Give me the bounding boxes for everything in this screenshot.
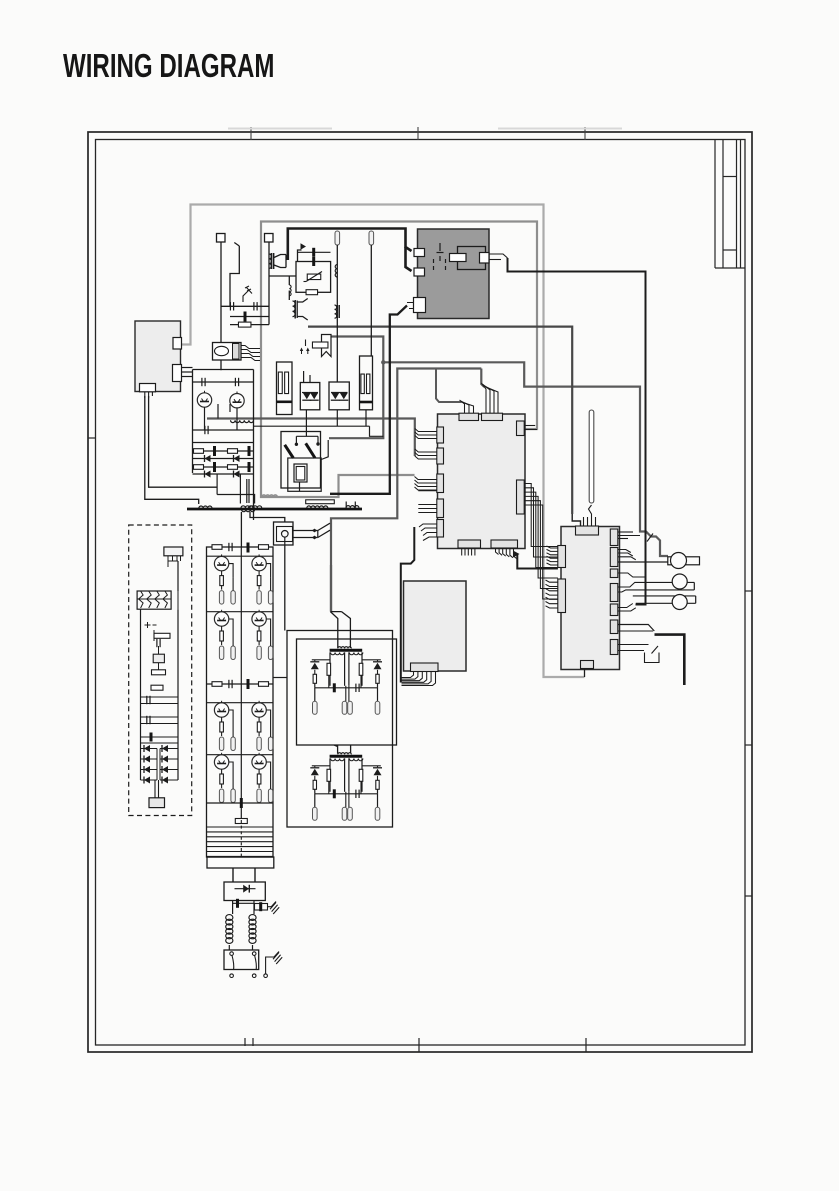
wire G3 pad pins xyxy=(415,429,437,432)
dbox cap marks xyxy=(145,622,157,628)
wire B6 hybrid tab3 down xyxy=(407,303,414,309)
dbox wires xyxy=(140,609,142,697)
transistor Q4 xyxy=(252,556,266,570)
wire stub near S1 xyxy=(230,246,239,307)
U4 left pad 1 xyxy=(437,427,444,443)
frame fold mark top 2 xyxy=(417,127,419,140)
border frame inner xyxy=(96,140,746,1046)
frame fold mark left xyxy=(88,437,96,439)
wire U2 to bus xyxy=(145,396,199,504)
bank center rail xyxy=(240,547,242,820)
choke nested box xyxy=(274,522,294,545)
diode box D1 xyxy=(300,383,320,410)
frame fold mark right 1 xyxy=(745,590,752,592)
connector square S2 xyxy=(265,234,274,243)
U4 pad bottom 1 xyxy=(458,540,481,548)
U2 tab right mid xyxy=(173,365,182,382)
U4 pad top right xyxy=(482,413,503,420)
main bus line xyxy=(187,508,362,511)
wire S2 down xyxy=(268,242,270,325)
transistor Q5 xyxy=(214,612,228,626)
fuse box F1 xyxy=(277,362,293,415)
transformer T2 xyxy=(330,755,363,758)
bus winding 4 xyxy=(346,506,359,508)
bank ladder lines xyxy=(207,826,274,828)
resistor near flag xyxy=(312,342,328,348)
dbox resistor 2 xyxy=(152,670,166,675)
choke on L1 wire xyxy=(335,265,337,278)
U5 left pad2 bundle xyxy=(546,580,558,582)
switch box SW1 xyxy=(224,950,259,970)
transistor Q10 xyxy=(252,755,266,769)
bus winding 3 xyxy=(307,506,328,508)
cluster diode row 2 xyxy=(193,473,254,475)
cluster resistor row 2 xyxy=(193,466,254,468)
wire gray route G3 to IC1 pads 1-2 xyxy=(207,419,415,457)
wire L1 down xyxy=(336,245,338,382)
cap box right xyxy=(253,903,255,914)
wire gray route G6 IC1 top pads to transformer xyxy=(331,369,481,566)
hybrid U1 small marks xyxy=(439,243,441,251)
coil spring right xyxy=(249,915,256,921)
transistor Q2 xyxy=(230,394,244,408)
U4 pad bottom 2 xyxy=(491,540,518,548)
bank base rect xyxy=(207,857,274,868)
arrow symbol xyxy=(298,250,302,262)
wire into T1 xyxy=(330,565,332,612)
wire inner box to T2 xyxy=(334,745,351,754)
bank mid components xyxy=(207,683,274,685)
D3 legs xyxy=(232,901,234,915)
resistor on box xyxy=(306,290,318,295)
wire gray route G4 to motor 1 xyxy=(331,337,668,557)
T2 secondary xyxy=(312,765,330,767)
wire thick L xyxy=(655,635,685,685)
relay bottom wires xyxy=(299,482,301,491)
optocoupler U3 xyxy=(213,343,242,361)
motor M2 xyxy=(672,574,687,589)
Q1 Q2 stubs xyxy=(204,407,206,430)
U5 top pad xyxy=(576,526,599,535)
transistor Q3 xyxy=(214,556,228,570)
bus winding 1 xyxy=(199,506,212,508)
wire G6 left pad branch xyxy=(436,370,462,403)
U4 left pad 3 xyxy=(437,474,444,493)
frame fold mark top 1 xyxy=(250,127,252,140)
hybrid U1 tab 1 xyxy=(414,249,425,257)
hybrid U1 inner box xyxy=(458,247,486,270)
bus winding 2 xyxy=(241,506,254,508)
dbox resistor 1 xyxy=(154,633,170,638)
wire junction row xyxy=(269,275,296,277)
cluster diode row 1 xyxy=(193,458,254,460)
U4 right pad top xyxy=(517,421,525,436)
relay contacts xyxy=(295,443,298,446)
wire gray route G5 to IC2 top xyxy=(308,327,572,514)
dbox cap rows xyxy=(141,696,179,698)
row capacitors mid xyxy=(221,305,269,307)
U4 right top pad wires xyxy=(524,425,535,427)
dbox small block xyxy=(153,654,164,663)
bank top components xyxy=(212,545,222,550)
frame faint top marks xyxy=(228,128,332,130)
bank legs xyxy=(232,868,234,882)
dbox connector xyxy=(164,547,183,556)
transformer T1 xyxy=(330,649,363,652)
up arrows xyxy=(302,349,308,354)
transistor bank box xyxy=(207,547,274,857)
U5 p2 wires to motor1 xyxy=(618,550,636,560)
wire gray route G2 opto to IC1 xyxy=(261,222,537,498)
varistor xyxy=(307,274,321,280)
U4 right pad mid xyxy=(517,480,525,514)
bank to outer box link xyxy=(273,677,287,679)
frame fold mark bottom 3 xyxy=(585,1038,587,1052)
U4 left pad 5 xyxy=(437,520,444,538)
inner transformer box xyxy=(297,639,397,745)
U3 pins to G2 xyxy=(241,346,260,349)
legend strip top right xyxy=(714,140,716,269)
wire L2 down xyxy=(370,245,372,357)
dbox diode matrix xyxy=(141,742,179,744)
cluster bottom legs xyxy=(216,474,218,494)
U4 bottom pad1 pins xyxy=(461,548,463,556)
ground 1 xyxy=(270,902,276,909)
choke down wire xyxy=(284,545,286,631)
U4 left pad 2 xyxy=(437,448,444,464)
U5 left pad1 bundle xyxy=(547,546,558,548)
U5 p3 wire xyxy=(618,573,646,577)
cluster row 442 xyxy=(193,442,254,444)
U5 top pins xyxy=(583,517,585,526)
flag connector xyxy=(322,335,332,357)
frame fold mark right 3 xyxy=(745,895,752,897)
dbox bottom pad xyxy=(155,780,159,798)
frame fold mark bottom 2 xyxy=(418,1038,420,1052)
frame fold mark bottom 1 xyxy=(244,1038,246,1046)
capsule lamp L2 xyxy=(369,231,374,245)
dbox resistor 3 xyxy=(151,685,163,690)
U5 p5 wires to motor3 xyxy=(618,604,636,612)
dashed service box xyxy=(129,525,192,816)
wire U4 pad5 route down xyxy=(419,524,437,541)
U5 right pads xyxy=(610,529,618,546)
winding on G3 xyxy=(230,420,253,422)
bank bottom resistor xyxy=(235,819,247,824)
wire G6 right pad pins xyxy=(481,369,484,388)
transistor Q9 xyxy=(214,755,228,769)
connector square S1 xyxy=(217,234,226,243)
border frame outer xyxy=(88,132,752,1052)
U5 left pad 2 xyxy=(558,579,566,613)
zener box xyxy=(296,262,331,293)
U4 bottom pad2 pins to arrow xyxy=(496,548,499,555)
U5 p6 wire to thick L xyxy=(618,625,655,632)
hybrid U1 inner resistor xyxy=(450,254,467,262)
outer transformer box xyxy=(287,631,393,828)
motor M1 xyxy=(668,557,674,565)
capsule lamp L1 xyxy=(335,231,340,245)
inductor bumps on G2 xyxy=(262,495,277,497)
row 2 xyxy=(230,316,269,318)
wire gray loop G1 xyxy=(182,205,585,678)
T1 secondary xyxy=(312,659,330,661)
U5 left pad 1 xyxy=(558,546,566,568)
hybrid power block U1 xyxy=(418,229,490,319)
hybrid U1 tab 3 xyxy=(414,298,426,313)
transistor Q1 xyxy=(197,393,211,407)
U2 bottom pins xyxy=(144,392,146,398)
cluster box rails xyxy=(192,370,194,474)
wire G2 pad3 pins xyxy=(415,477,438,480)
U4 pad top left xyxy=(459,413,479,420)
transformer T_A windings xyxy=(269,254,271,268)
U5 p7 wires xyxy=(618,644,649,646)
frame fold mark top 3 xyxy=(584,127,586,140)
U5 p1 wires xyxy=(618,531,633,533)
motor M3 xyxy=(672,595,687,610)
U5 bottom pad xyxy=(581,661,594,669)
transistor Q8 xyxy=(252,703,266,717)
dbox cap 2 xyxy=(156,639,158,647)
wire G4 branch to relay xyxy=(329,362,383,438)
diode box D2 xyxy=(329,382,349,410)
wire S1 down xyxy=(220,242,222,343)
cluster resistor row 1 xyxy=(193,450,254,452)
U4 right mid fan to IC2 xyxy=(524,484,558,547)
U5 p4 wires to motor2 xyxy=(618,582,695,587)
dbox resistor network xyxy=(137,591,171,609)
transformer T_M xyxy=(293,301,296,317)
relay box K1 xyxy=(281,432,321,489)
wire down to T_M xyxy=(288,276,290,285)
relay coil box xyxy=(294,464,307,482)
bank dashed vertical xyxy=(240,820,242,856)
wire B4 to IC2 xyxy=(517,555,558,569)
hybrid U1 output pad xyxy=(480,253,490,264)
bank row lines xyxy=(207,555,274,557)
wire thick B1 top rail to hybrid tabs xyxy=(288,229,412,261)
title WIRING DIAGRAM xyxy=(63,47,274,85)
U4 left pad 4 xyxy=(437,499,444,518)
transistor Q6 xyxy=(252,612,266,626)
U2 tab bottom xyxy=(140,384,156,392)
IC U4 main controller xyxy=(438,414,526,549)
U2 pins right xyxy=(182,367,193,369)
cluster row 430 xyxy=(193,429,254,431)
bus winding below xyxy=(242,510,255,512)
wire B2 hybrid out to IC2 area xyxy=(489,254,508,258)
IC U6 audio block xyxy=(404,581,467,671)
row 3 resistor xyxy=(230,324,269,326)
bus secondary legs xyxy=(240,512,242,547)
hybrid U1 tab 2 xyxy=(414,268,425,276)
U4 pad4 stubs xyxy=(418,504,437,506)
fuse box F2 xyxy=(360,356,373,410)
choke wires right xyxy=(293,530,318,532)
U2 tab right top xyxy=(173,338,182,350)
G4 slash mark xyxy=(647,534,653,542)
ground 2 xyxy=(264,974,268,978)
capacitor stack C_A xyxy=(298,251,331,253)
column verticals to relay xyxy=(305,410,307,426)
relay inner box xyxy=(288,458,321,491)
relay feed wires xyxy=(254,425,370,427)
IC U5 driver xyxy=(561,527,620,670)
frame fold mark right 2 xyxy=(745,744,752,746)
U6 bottom pad xyxy=(411,663,439,672)
cluster caps top xyxy=(193,381,254,383)
inductor on L1 xyxy=(335,305,337,318)
left module U2 xyxy=(135,321,181,392)
white wire to U5 xyxy=(589,410,594,503)
transistor Q7 xyxy=(214,703,228,717)
wire U2 pin2 xyxy=(149,396,218,487)
diode box D3 xyxy=(224,882,265,901)
bank bottom bar xyxy=(207,802,274,804)
U6 pins fan xyxy=(402,672,414,678)
zener sym xyxy=(243,286,252,302)
coil spring left xyxy=(226,915,233,921)
U5 bottom pin xyxy=(584,669,586,678)
